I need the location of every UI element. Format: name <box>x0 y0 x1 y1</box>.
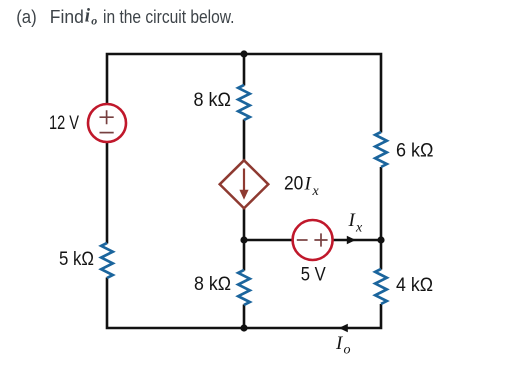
title text <box>16 6 234 28</box>
node dot top (junction of 8k branch with top rail) <box>240 50 247 57</box>
svg-text:12 V: 12 V <box>49 113 79 134</box>
resistor 6 kOhm <box>375 132 387 167</box>
svg-text:8 kΩ: 8 kΩ <box>194 274 231 295</box>
svg-text:5 V: 5 V <box>301 265 326 286</box>
current arrow Ix on wire <box>347 236 356 245</box>
resistor 5 kOhm <box>101 243 113 278</box>
svg-text:20: 20 <box>284 174 303 195</box>
node dot right (junction of 5V wire with right rail) <box>377 236 384 243</box>
resistor 8 kOhm top <box>238 85 250 120</box>
wire middle (node B to bottom 8k resistor) <box>243 240 246 271</box>
svg-text:x: x <box>312 184 320 199</box>
svg-text:o: o <box>344 343 351 358</box>
wire middle top (top node to 8k resistor) <box>243 54 246 86</box>
node dot B (junction middle) <box>240 236 247 243</box>
wire middle (diamond to node B) <box>243 208 246 240</box>
wire top loop: left-upper, top, right-upper segments <box>107 54 381 133</box>
resistor 8 kOhm bottom <box>238 270 250 305</box>
wire middle (8k resistor to diamond) <box>243 120 246 161</box>
12V plus sign <box>100 110 114 124</box>
svg-text:Find: Find <box>50 7 84 27</box>
wire right middle segment <box>380 167 383 270</box>
svg-text:5 kΩ: 5 kΩ <box>59 249 94 270</box>
wire bottom loop: left-lower, bottom, right-lower segments <box>107 278 381 329</box>
node dot bottom (junction of 8k branch with bottom rail) <box>240 324 247 331</box>
svg-text:8 kΩ: 8 kΩ <box>194 90 232 111</box>
5V minus sign <box>297 239 308 241</box>
12V minus sign <box>100 132 114 134</box>
svg-text:6 kΩ: 6 kΩ <box>396 141 434 162</box>
svg-text:4 kΩ: 4 kΩ <box>396 275 433 296</box>
svg-text:i: i <box>85 6 91 27</box>
voltage source 12V circle <box>88 104 126 142</box>
voltage source 5V circle <box>293 220 333 260</box>
svg-text:in the circuit below.: in the circuit below. <box>103 7 235 27</box>
svg-text:o: o <box>91 14 97 28</box>
wire left middle segment <box>106 143 109 244</box>
svg-text:I: I <box>304 174 313 195</box>
5V plus sign <box>314 233 327 246</box>
wire 5V source to right rail <box>333 239 381 242</box>
wire node B to 5V source <box>244 239 293 242</box>
svg-text:(a): (a) <box>16 7 37 27</box>
wire middle (bottom 8k to bottom rail) <box>243 305 246 329</box>
dependent current source diamond 20Ix <box>220 160 269 208</box>
current arrow Io on bottom wire <box>339 324 348 333</box>
dependent source arrow shaft <box>243 169 245 191</box>
dependent source arrowhead <box>239 190 248 200</box>
resistor 4 kOhm <box>375 269 387 304</box>
svg-text:x: x <box>355 221 363 236</box>
